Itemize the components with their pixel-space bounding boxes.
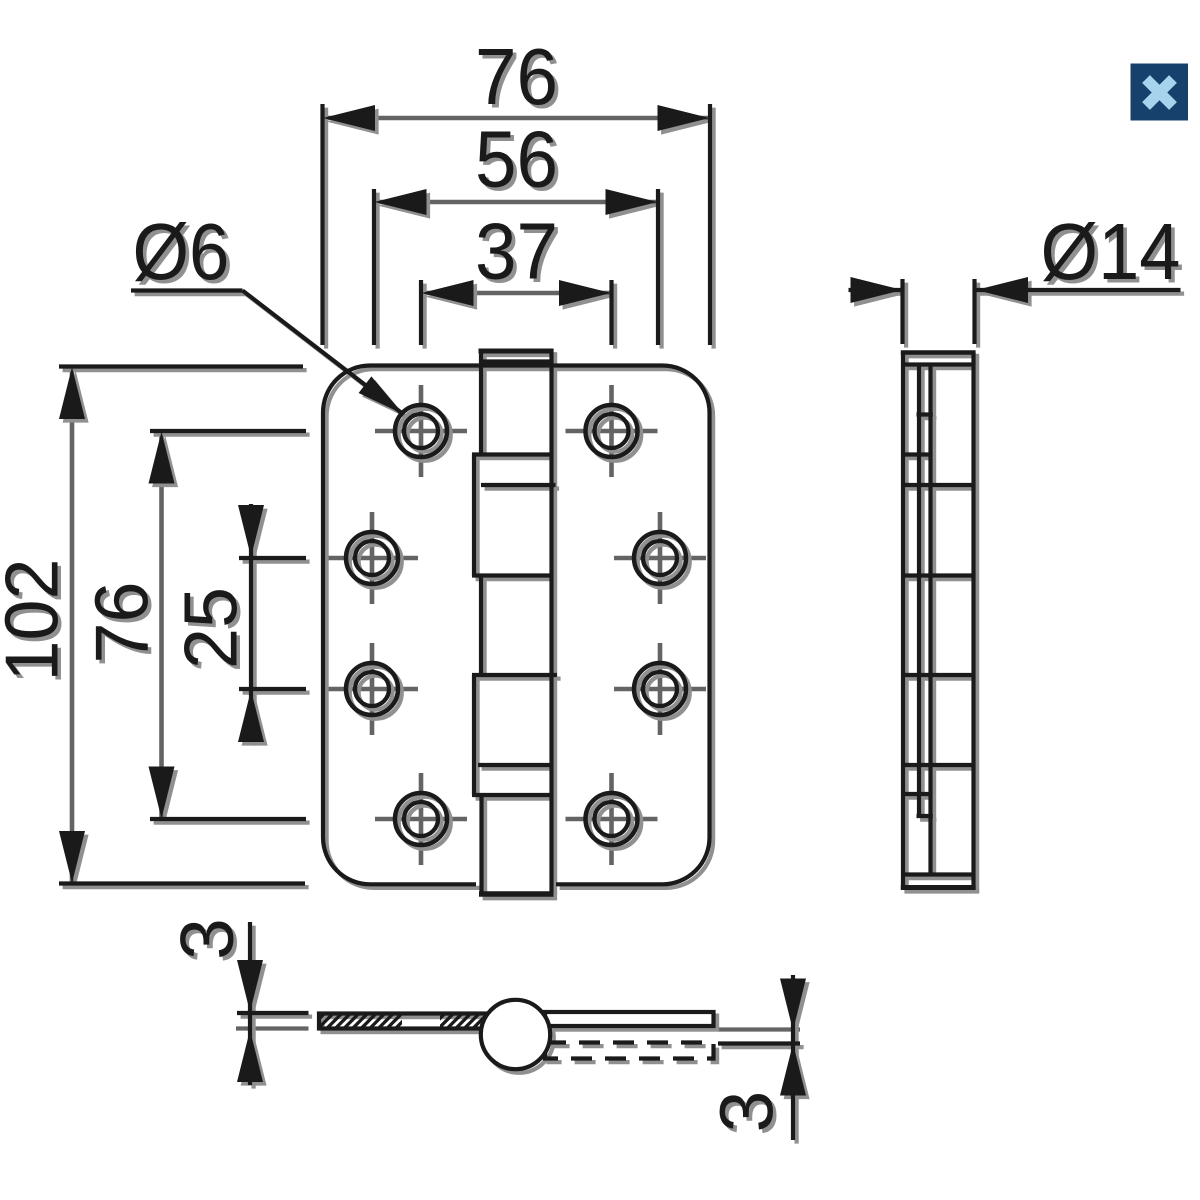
- gray dimension line 76 top: [323, 116, 710, 121]
- centerlines of screw hole 5: [326, 687, 418, 692]
- gray dimension line 56: [374, 200, 658, 205]
- gray centerlines and dimension lines: [72, 118, 800, 1030]
- centerlines of screw hole 4: [614, 556, 706, 561]
- centerlines of screw hole 2: [566, 429, 658, 434]
- gray extension line (section right, upper): [718, 1027, 800, 1031]
- gray extension line (section left, lower): [236, 1026, 309, 1030]
- blue close (X) icon top right: [1131, 64, 1189, 121]
- gray dimension line 102: [70, 367, 75, 884]
- centerlines of screw hole 3: [326, 556, 418, 561]
- centerlines of screw hole 6: [614, 687, 706, 692]
- gray dimension line 37: [421, 291, 612, 296]
- gray dimension line 76 left: [159, 431, 164, 819]
- centerlines of screw hole 1: [375, 429, 467, 434]
- centerlines of screw hole 8: [566, 817, 658, 822]
- centerlines of screw hole 7: [375, 817, 467, 822]
